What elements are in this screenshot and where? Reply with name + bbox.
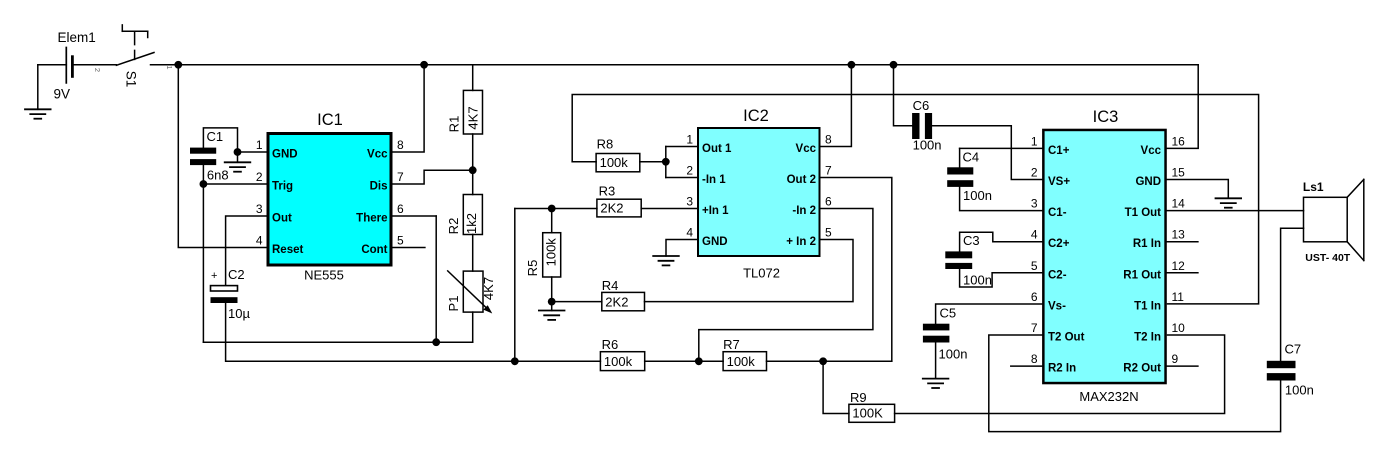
svg-text:+ In 2: + In 2 bbox=[786, 236, 816, 248]
svg-text:100k: 100k bbox=[727, 354, 756, 369]
svg-text:15: 15 bbox=[1172, 166, 1186, 180]
switch S1 bbox=[116, 25, 154, 87]
ground (IC1 pin1) bbox=[225, 152, 251, 172]
wire R4 right to +In2 bbox=[645, 240, 854, 302]
node rail-ic2vcc bbox=[848, 61, 856, 69]
svg-text:C4: C4 bbox=[963, 150, 980, 165]
wire C1 top to pin1 bbox=[203, 128, 266, 152]
svg-text:Out 1: Out 1 bbox=[702, 143, 732, 155]
svg-text:100n: 100n bbox=[963, 273, 992, 288]
svg-text:C2-: C2- bbox=[1048, 269, 1067, 281]
wire C3 top to C2+ bbox=[960, 232, 1043, 251]
svg-text:9V: 9V bbox=[54, 86, 71, 101]
capacitor C5 bbox=[923, 306, 968, 362]
ground (C5) bbox=[923, 379, 949, 388]
svg-text:4: 4 bbox=[686, 226, 693, 240]
wire C1 bottom down bbox=[202, 165, 204, 342]
svg-text:C2+: C2+ bbox=[1048, 238, 1070, 250]
svg-text:8: 8 bbox=[397, 138, 404, 152]
svg-text:100k: 100k bbox=[600, 155, 629, 170]
wire pin9 stub bbox=[1167, 365, 1198, 367]
node rail-ic1vcc bbox=[420, 61, 428, 69]
svg-text:R1: R1 bbox=[447, 116, 462, 133]
capacitor C3 bbox=[945, 233, 992, 288]
wire P1 bottom bbox=[472, 312, 474, 342]
svg-text:Reset: Reset bbox=[272, 244, 303, 256]
svg-text:12: 12 bbox=[1172, 259, 1186, 273]
ground (IC2 pin4) bbox=[653, 256, 679, 265]
svg-text:5: 5 bbox=[397, 234, 404, 248]
svg-text:4: 4 bbox=[256, 234, 263, 248]
switch pin label 2 bbox=[93, 68, 102, 72]
wire C1+ pin1 bbox=[960, 147, 1043, 149]
svg-text:IC2: IC2 bbox=[743, 107, 769, 125]
resistor R8 bbox=[596, 137, 640, 172]
svg-text:R2 In: R2 In bbox=[1048, 363, 1076, 375]
wire pin13 stub bbox=[1167, 241, 1198, 243]
svg-text:Cont: Cont bbox=[361, 244, 387, 256]
svg-text:2: 2 bbox=[93, 68, 102, 72]
wire C6 right to VS+ bbox=[932, 126, 1043, 180]
IC U3 IC3 MAX232N body bbox=[1043, 108, 1165, 404]
svg-text:R5: R5 bbox=[525, 260, 540, 277]
wire Out2 link bbox=[821, 178, 892, 362]
svg-text:3: 3 bbox=[686, 195, 693, 209]
svg-text:T2 In: T2 In bbox=[1134, 332, 1161, 344]
capacitor C1 bbox=[190, 129, 229, 183]
potentiometer P1 bbox=[446, 271, 496, 314]
resistor R1 bbox=[447, 90, 483, 134]
wire R3drop bbox=[514, 209, 516, 362]
svg-text:7: 7 bbox=[825, 164, 832, 178]
node R6-R7--In2 bbox=[695, 357, 703, 365]
resistor R4 bbox=[602, 278, 645, 311]
svg-text:100k: 100k bbox=[604, 354, 633, 369]
svg-text:R9: R9 bbox=[850, 390, 867, 405]
node rail-reset bbox=[174, 61, 182, 69]
svg-text:5: 5 bbox=[825, 226, 832, 240]
svg-text:GND: GND bbox=[702, 236, 728, 248]
wire C5 bottom bbox=[935, 343, 937, 379]
wire Dis pin7 bbox=[393, 170, 473, 184]
svg-text:R6: R6 bbox=[602, 337, 619, 352]
svg-text:2K2: 2K2 bbox=[605, 294, 628, 309]
wire IC2 Vcc bbox=[821, 65, 852, 147]
svg-text:Out 2: Out 2 bbox=[787, 174, 816, 186]
svg-text:R3: R3 bbox=[599, 184, 616, 199]
svg-text:T2 Out: T2 Out bbox=[1048, 332, 1085, 344]
svg-text:4: 4 bbox=[1031, 228, 1038, 242]
ground (battery) bbox=[25, 65, 51, 119]
wire R5 top bbox=[551, 209, 553, 233]
IC1 pin labels bbox=[256, 138, 404, 256]
svg-text:IC3: IC3 bbox=[1093, 108, 1119, 126]
capacitor C6 bbox=[912, 98, 941, 153]
svg-text:+In 1: +In 1 bbox=[702, 205, 729, 217]
svg-text:100n: 100n bbox=[913, 138, 942, 153]
svg-text:10: 10 bbox=[1172, 321, 1186, 335]
speaker Ls1 bbox=[1303, 179, 1364, 264]
svg-text:P1: P1 bbox=[446, 296, 461, 312]
wire C3 bottom to C2- bbox=[960, 269, 1043, 287]
resistor R5 bbox=[525, 233, 561, 277]
wire R3 right bbox=[641, 208, 697, 210]
svg-text:Ls1: Ls1 bbox=[1303, 180, 1324, 194]
svg-text:UST- 40T: UST- 40T bbox=[1305, 252, 1351, 264]
wire R5 bottom bbox=[551, 277, 553, 302]
svg-text:Trig: Trig bbox=[272, 181, 293, 193]
svg-text:2: 2 bbox=[256, 170, 263, 184]
svg-text:100n: 100n bbox=[939, 347, 968, 362]
node R7-R9 bbox=[819, 357, 827, 365]
svg-text:100n: 100n bbox=[963, 188, 992, 203]
ground (R5) bbox=[539, 302, 565, 320]
svg-text:4K7: 4K7 bbox=[481, 277, 496, 300]
wire R1-R2 bbox=[472, 134, 474, 195]
wire Cont stub bbox=[393, 247, 425, 249]
svg-text:-In 2: -In 2 bbox=[792, 205, 816, 217]
svg-text:T1 In: T1 In bbox=[1134, 300, 1161, 312]
svg-text:Dis: Dis bbox=[370, 181, 388, 193]
node R3-R5 bbox=[548, 205, 556, 213]
node R5-R4 bbox=[548, 298, 556, 306]
svg-text:13: 13 bbox=[1172, 228, 1186, 242]
wire IC3 Vcc pin16 bbox=[1167, 65, 1198, 149]
switch pin label 1 bbox=[165, 65, 174, 69]
wire Reset to rail bbox=[178, 65, 266, 248]
svg-text:1: 1 bbox=[1031, 134, 1038, 148]
wire pin8 stub bbox=[1011, 365, 1042, 367]
wire T1 Out to speaker bbox=[1167, 210, 1304, 212]
svg-text:100n: 100n bbox=[1285, 383, 1314, 398]
wire IC2 GND pin4 bbox=[666, 240, 697, 257]
svg-text:6: 6 bbox=[1031, 290, 1038, 304]
svg-text:IC1: IC1 bbox=[317, 111, 343, 129]
svg-text:R2: R2 bbox=[446, 218, 461, 235]
svg-text:TL072: TL072 bbox=[743, 266, 780, 281]
svg-text:T1 Out: T1 Out bbox=[1125, 207, 1162, 219]
svg-text:C3: C3 bbox=[963, 233, 980, 248]
svg-text:10µ: 10µ bbox=[228, 306, 250, 321]
wire R8 left bbox=[572, 161, 596, 163]
svg-text:6n8: 6n8 bbox=[207, 168, 229, 183]
svg-text:2K2: 2K2 bbox=[600, 200, 623, 215]
svg-text:R8: R8 bbox=[597, 137, 614, 152]
svg-text:R4: R4 bbox=[602, 278, 619, 293]
svg-text:VS+: VS+ bbox=[1048, 176, 1070, 188]
svg-text:Vcc: Vcc bbox=[796, 143, 817, 155]
capacitor C4 bbox=[947, 148, 992, 203]
svg-text:Vcc: Vcc bbox=[367, 149, 388, 161]
resistor R9 bbox=[849, 390, 895, 422]
wire R9 to T2In bbox=[895, 335, 1225, 414]
wire pin12 stub bbox=[1167, 272, 1198, 274]
svg-text:C1: C1 bbox=[207, 129, 224, 144]
capacitor C2 bbox=[211, 267, 251, 321]
wire speaker to C7 bbox=[1281, 228, 1304, 360]
IC2 pin labels bbox=[686, 133, 832, 249]
svg-text:9: 9 bbox=[1172, 352, 1179, 366]
svg-text:+: + bbox=[211, 270, 217, 282]
svg-text:C7: C7 bbox=[1285, 342, 1302, 357]
svg-text:S1: S1 bbox=[123, 71, 138, 88]
wire C5 top to Vs- bbox=[936, 304, 1043, 324]
svg-text:2: 2 bbox=[686, 164, 693, 178]
wire +9V rail bbox=[151, 64, 1199, 66]
node C1-Trig bbox=[200, 180, 208, 188]
svg-text:1: 1 bbox=[165, 65, 174, 69]
svg-text:R1 Out: R1 Out bbox=[1123, 269, 1161, 281]
svg-text:100K: 100K bbox=[852, 406, 883, 421]
node rail-c6 bbox=[890, 61, 898, 69]
IC3 pin labels bbox=[1031, 134, 1185, 374]
svg-text:3: 3 bbox=[256, 202, 263, 216]
svg-text:C1+: C1+ bbox=[1048, 145, 1070, 157]
svg-text:-In 1: -In 1 bbox=[702, 174, 726, 186]
svg-text:6: 6 bbox=[397, 202, 404, 216]
resistor R3 bbox=[597, 184, 641, 217]
svg-text:Elem1: Elem1 bbox=[58, 30, 96, 45]
svg-text:C2: C2 bbox=[228, 267, 245, 282]
svg-text:R7: R7 bbox=[723, 337, 740, 352]
svg-text:6: 6 bbox=[825, 195, 832, 209]
node There-bottom bbox=[432, 338, 440, 346]
op-amp U1 IC1 NE555 body bbox=[268, 111, 391, 282]
svg-text:8: 8 bbox=[825, 133, 832, 147]
svg-text:1: 1 bbox=[256, 138, 263, 152]
wire Vcc pin8 bbox=[393, 65, 425, 152]
svg-text:4K7: 4K7 bbox=[466, 106, 481, 129]
svg-text:Vs-: Vs- bbox=[1048, 300, 1066, 312]
wire bottom net to P1 bbox=[203, 341, 472, 343]
svg-text:5: 5 bbox=[1031, 259, 1038, 273]
svg-text:R2 Out: R2 Out bbox=[1123, 363, 1161, 375]
wire R7 right bbox=[767, 360, 892, 362]
svg-text:MAX232N: MAX232N bbox=[1079, 389, 1138, 404]
wire C6 left bbox=[894, 65, 913, 126]
svg-text:8: 8 bbox=[1031, 352, 1038, 366]
wire Trig stub bbox=[203, 183, 266, 185]
wire Out1 -In1 tie bbox=[666, 147, 698, 178]
svg-text:C6: C6 bbox=[913, 98, 930, 113]
svg-text:Out: Out bbox=[272, 213, 292, 225]
svg-text:GND: GND bbox=[1135, 176, 1161, 188]
wire R4 left bbox=[552, 301, 602, 303]
wire IC3 GND pin15 bbox=[1167, 180, 1229, 199]
battery Elem1 bbox=[38, 30, 117, 101]
node C2net-R3drop bbox=[511, 357, 519, 365]
wire Out to C2 bbox=[226, 216, 267, 285]
node R8-pins12 bbox=[662, 158, 670, 166]
svg-text:R1 In: R1 In bbox=[1133, 238, 1161, 250]
wire R3 left bbox=[515, 208, 597, 210]
resistor R6 bbox=[600, 337, 644, 371]
wire C2 bottom to R6 bbox=[226, 303, 601, 361]
svg-text:2: 2 bbox=[1031, 166, 1038, 180]
svg-text:14: 14 bbox=[1172, 197, 1186, 211]
node R1-R2-Dis bbox=[469, 166, 477, 174]
svg-text:GND: GND bbox=[272, 149, 298, 161]
svg-text:100k: 100k bbox=[544, 238, 559, 267]
resistor R7 bbox=[723, 337, 766, 371]
wire C4 bottom to C1- bbox=[960, 187, 1043, 211]
svg-text:NE555: NE555 bbox=[304, 268, 344, 283]
svg-text:There: There bbox=[356, 213, 387, 225]
wire There drop bbox=[393, 216, 437, 342]
resistor R2 bbox=[446, 195, 482, 235]
svg-text:1k2: 1k2 bbox=[464, 213, 479, 234]
svg-text:C1-: C1- bbox=[1048, 207, 1067, 219]
wire feedback T1In-R8 bbox=[572, 95, 1258, 304]
ground (IC3 pin15) bbox=[1216, 198, 1242, 207]
wire R6-R7 bbox=[645, 360, 723, 362]
wire T2 Out to C7 bottom bbox=[989, 335, 1281, 432]
capacitor C7 bbox=[1267, 342, 1314, 398]
svg-text:3: 3 bbox=[1031, 197, 1038, 211]
svg-text:C5: C5 bbox=[940, 306, 957, 321]
node C1-pin1 bbox=[234, 148, 242, 156]
wire -In2 link bbox=[699, 209, 873, 362]
wire R1 top bbox=[472, 65, 474, 91]
op-amp U2 IC2 TL072 body bbox=[698, 107, 820, 281]
svg-text:1: 1 bbox=[686, 133, 693, 147]
svg-text:7: 7 bbox=[1031, 321, 1038, 335]
svg-text:11: 11 bbox=[1172, 290, 1185, 304]
svg-text:7: 7 bbox=[397, 170, 404, 184]
wire R9 left bbox=[823, 361, 849, 413]
svg-text:16: 16 bbox=[1172, 134, 1186, 148]
wire R8 right bbox=[640, 161, 666, 163]
wire R2-P1 bbox=[472, 235, 474, 272]
svg-text:Vcc: Vcc bbox=[1141, 145, 1162, 157]
